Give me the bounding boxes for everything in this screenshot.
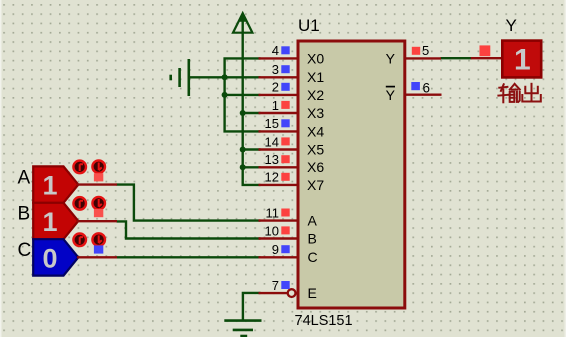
wire logicstate A to pin 11 xyxy=(117,185,261,221)
pin 12 stub xyxy=(259,184,298,186)
pin 2 stub xyxy=(259,94,298,96)
state square pin10 (red) xyxy=(281,226,289,234)
wire logicstate C to pin 9 xyxy=(117,256,261,258)
junction on stem at X5 xyxy=(240,147,246,153)
toggle down button B xyxy=(92,197,105,210)
chip U1 pin stubs left xyxy=(259,58,442,293)
svg-text:X3: X3 xyxy=(307,105,324,121)
state square pin1 (red) xyxy=(281,101,289,109)
svg-text:1: 1 xyxy=(514,44,531,77)
svg-text:X2: X2 xyxy=(307,87,324,103)
wire ground to bus (X1 row) xyxy=(189,76,261,78)
toggle down button C xyxy=(92,233,105,246)
wire X2 row xyxy=(225,94,261,96)
svg-text:0: 0 xyxy=(42,243,57,273)
logicstate C body xyxy=(33,239,78,275)
state square probe (red) xyxy=(480,45,491,56)
state square pin3 (blue) xyxy=(281,65,289,73)
power arrow tip fill xyxy=(238,12,247,22)
svg-text:C: C xyxy=(308,249,318,265)
ground symbol left xyxy=(171,59,189,96)
svg-text:3: 3 xyxy=(272,62,279,77)
wire E pin to ground xyxy=(243,293,261,320)
pin 5 stub xyxy=(405,57,441,59)
svg-text:2: 2 xyxy=(272,80,279,95)
svg-text:U1: U1 xyxy=(298,16,320,35)
hanzi 出 xyxy=(522,84,541,102)
svg-text:1: 1 xyxy=(272,98,279,113)
svg-text:X0: X0 xyxy=(307,50,324,66)
svg-text:13: 13 xyxy=(265,152,279,167)
svg-text:A: A xyxy=(308,213,318,229)
svg-text:10: 10 xyxy=(265,223,279,238)
svg-text:1: 1 xyxy=(42,207,57,237)
svg-text:X1: X1 xyxy=(307,69,324,85)
pin 9 stub xyxy=(259,256,298,258)
state square C (blue) xyxy=(94,245,103,253)
pin 15 stub xyxy=(259,130,298,132)
pin 14 stub xyxy=(259,148,298,150)
svg-text:15: 15 xyxy=(265,116,279,131)
state square pin2 (blue) xyxy=(281,83,289,91)
pin 13 stub xyxy=(259,166,298,168)
svg-text:Y: Y xyxy=(386,50,396,66)
pin 7 inverter bubble xyxy=(288,289,296,297)
label 输出 (drawn strokes) xyxy=(498,84,540,103)
logicstate B wire stub xyxy=(77,220,117,222)
pin 7 stub xyxy=(259,292,289,294)
svg-text:74LS151: 74LS151 xyxy=(295,313,353,329)
svg-text:11: 11 xyxy=(266,205,280,220)
toggle up button B xyxy=(73,197,86,210)
pin 11 stub xyxy=(259,219,298,221)
wire logicstate B to pin 10 xyxy=(117,221,261,238)
svg-text:6: 6 xyxy=(423,81,431,96)
window right edge highlight xyxy=(565,0,566,337)
wire pin5 Y to probe xyxy=(441,57,472,59)
svg-text:9: 9 xyxy=(272,242,279,257)
svg-text:Y: Y xyxy=(506,16,517,35)
wire VCC stem down to X7 row xyxy=(243,32,261,185)
logicstate A wire stub xyxy=(77,183,117,185)
hanzi 输 xyxy=(498,84,519,102)
svg-text:4: 4 xyxy=(272,43,279,58)
svg-text:12: 12 xyxy=(265,170,279,185)
pin 10 stub xyxy=(259,237,298,239)
output probe stub xyxy=(471,57,503,59)
state square pin14 (red) xyxy=(281,137,289,145)
svg-text:1: 1 xyxy=(42,170,57,200)
window left edge highlight xyxy=(0,0,2,337)
svg-text:14: 14 xyxy=(265,134,279,149)
state square pin5 (red) xyxy=(412,47,420,55)
toggle up button C xyxy=(73,234,86,247)
logicstate C wire stub xyxy=(77,256,117,258)
junction on bus at X2 xyxy=(222,92,228,98)
svg-text:C: C xyxy=(18,240,32,261)
state square pin12 (red) xyxy=(281,173,289,181)
state square pin6 (blue) xyxy=(411,82,420,90)
ground symbol bottom xyxy=(224,321,261,336)
svg-text:7: 7 xyxy=(272,278,279,293)
state square A (red) xyxy=(94,173,103,181)
output probe box xyxy=(502,41,541,78)
state square pin13 (red) xyxy=(281,155,289,163)
wire ground bus X0 to X4 xyxy=(225,58,261,131)
pin 4 stub xyxy=(259,57,298,59)
state square pin15 (blue) xyxy=(281,119,289,127)
pin 6 stub xyxy=(405,93,442,95)
state square pin9 (blue) xyxy=(281,245,289,253)
state square pin4 (blue) xyxy=(281,46,289,54)
pin 3 stub xyxy=(259,76,298,78)
power symbol VCC arrow xyxy=(233,13,252,33)
wire X3 row xyxy=(243,112,261,114)
svg-text:X6: X6 xyxy=(307,159,324,175)
logicstate B body xyxy=(33,203,78,239)
svg-text:Y: Y xyxy=(386,87,396,103)
wire X6 row xyxy=(243,166,261,168)
junction on stem at X3 xyxy=(240,110,246,116)
svg-text:E: E xyxy=(308,285,317,301)
state square pin11 (red) xyxy=(281,209,289,217)
toggle down button A xyxy=(92,160,105,173)
pin 1 stub xyxy=(259,112,298,114)
chip U1 body xyxy=(298,41,405,308)
junction on stem at X6 xyxy=(240,164,246,170)
Ybar overline xyxy=(386,86,395,88)
toggle up button A xyxy=(73,161,86,174)
logicstate A body xyxy=(33,166,78,202)
svg-text:5: 5 xyxy=(422,43,429,58)
wire X5 row xyxy=(243,148,261,150)
svg-text:B: B xyxy=(308,230,317,246)
state square B (red) xyxy=(94,209,103,217)
svg-text:B: B xyxy=(18,204,31,225)
svg-text:X7: X7 xyxy=(307,177,324,193)
svg-text:A: A xyxy=(18,167,31,188)
state square pin7 (blue) xyxy=(281,281,289,289)
svg-text:X5: X5 xyxy=(307,141,324,157)
junction on bus at X1 xyxy=(222,74,228,80)
svg-text:X4: X4 xyxy=(307,123,324,139)
